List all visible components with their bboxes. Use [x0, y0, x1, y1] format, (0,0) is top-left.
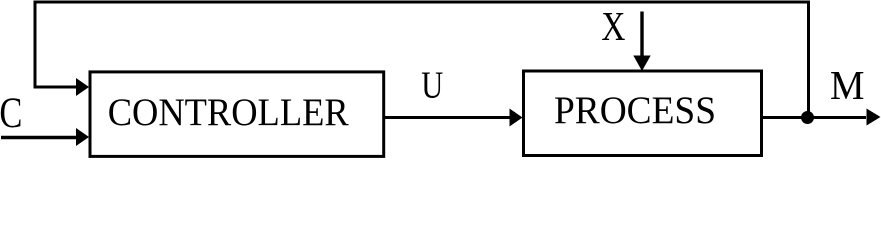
arrowhead X into process top	[633, 56, 650, 72]
wire feedback into controller	[34, 86, 78, 89]
wire feedback left vertical	[34, 2, 37, 87]
wire U controller to process	[384, 116, 510, 119]
block CONTROLLER	[90, 72, 384, 156]
arrowhead output M	[867, 109, 881, 126]
svg-text:X: X	[601, 3, 625, 49]
block PROCESS	[524, 71, 762, 156]
svg-text:M: M	[830, 62, 865, 108]
arrowhead feedback into controller	[76, 78, 89, 96]
arrowhead U into process	[510, 109, 523, 127]
svg-text:CONTROLLER: CONTROLLER	[108, 90, 350, 134]
svg-text:C: C	[0, 90, 22, 137]
wire output process to M	[762, 116, 866, 119]
svg-text:U: U	[421, 65, 443, 107]
wire disturbance X vertical	[640, 12, 643, 57]
wire input C	[1, 136, 76, 140]
wire feedback right vertical	[807, 2, 810, 118]
wire feedback top horizontal	[34, 1, 811, 4]
svg-text:PROCESS: PROCESS	[554, 88, 716, 132]
arrowhead input C	[76, 128, 89, 146]
node junction dot	[801, 111, 814, 124]
